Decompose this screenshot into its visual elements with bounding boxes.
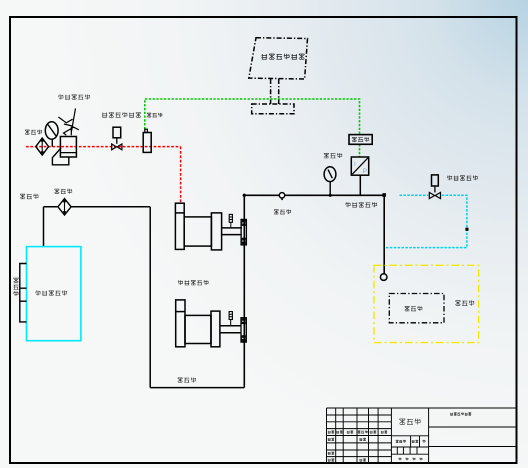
wire: green dashed segment display box to I/P	[359, 144, 361, 157]
label shuxianbiao	[352, 137, 369, 142]
label guolvqi-top-left	[25, 130, 42, 135]
svg-text:I: I	[354, 161, 356, 168]
wire: green dashed signal line from proportional valve up and across	[145, 99, 360, 135]
pressure switch S1 actuator box	[113, 127, 121, 138]
label danxiangfa	[274, 210, 291, 215]
label tiny460.7x413.9	[450, 413, 471, 416]
label tiny400x459	[399, 458, 402, 461]
label yalichuanganqi	[346, 202, 377, 207]
label tiny421x459	[420, 458, 423, 461]
gauge G2 circle with needle	[324, 167, 336, 182]
label wenyadiancifa	[447, 176, 477, 181]
gauge G1 ellipse with needle	[45, 122, 58, 139]
label qiyezengyabeng	[178, 280, 208, 285]
label tiny331x453.2	[328, 452, 334, 455]
label kongqitiaoyafa	[59, 95, 90, 100]
device under test box (black dash-dot)	[389, 294, 444, 323]
label tiny331x460	[328, 459, 334, 462]
monitor base	[252, 104, 294, 114]
label tiny362.7x460	[360, 459, 366, 462]
pump P1 bleed valve	[229, 214, 232, 222]
label tiny415x441.3	[412, 440, 418, 443]
label tiny424x441.3	[423, 440, 426, 443]
label tiny362.7x439.3	[360, 438, 366, 441]
booster pump P1 body	[175, 203, 242, 250]
monitor stand	[271, 79, 279, 104]
test chamber boundary (yellow dash-dot)	[374, 265, 479, 342]
label ceyakou	[455, 300, 474, 305]
wire I/P to main pipe	[359, 175, 361, 195]
pump P2 bleed valve	[229, 312, 232, 320]
wire: cyan dashed line to solenoid valve	[400, 194, 429, 196]
title block grid	[327, 408, 517, 463]
wire: red dashed air line horizontal	[26, 146, 181, 148]
label bilifa	[147, 113, 162, 117]
wire: inlet piping	[44, 207, 245, 388]
label tiny331x432	[328, 431, 334, 434]
pump P1 coupling	[241, 219, 246, 245]
label jiareqi	[14, 278, 19, 296]
wire: pump discharge riser	[243, 195, 245, 387]
regulator V1 box	[60, 137, 76, 158]
label yuanlitu	[399, 419, 420, 425]
pressure switch S1 bowtie valve	[112, 144, 122, 150]
label beiceijian	[405, 306, 423, 311]
label tiny350x432	[347, 431, 353, 434]
label tiny362.7x432	[358, 431, 368, 434]
nozzle outlet circle	[380, 274, 387, 281]
heater element bracket	[20, 264, 27, 322]
label buxiugangshuixiang	[36, 291, 67, 296]
label yasuokongqikaiguan	[102, 112, 141, 117]
filter F1 diamond on air line	[36, 138, 49, 155]
label xunhuanbeng	[178, 378, 196, 383]
label wenyabiao	[324, 153, 342, 158]
label tiny339.4x432	[336, 431, 342, 434]
junction node at pipe right end	[382, 193, 386, 197]
check valve CV1 circle	[279, 193, 284, 198]
pump P2 coupling	[241, 318, 246, 342]
svg-text:P: P	[363, 168, 367, 175]
label tiny373x432	[370, 431, 376, 434]
proportional valve PV1 body	[143, 133, 151, 153]
monitor screen (dash-dot)	[249, 38, 308, 79]
water tank (cyan rect)	[27, 247, 81, 341]
label shuirukou	[20, 194, 38, 199]
label guolvqi2	[55, 189, 73, 194]
circulation pump P2 body	[176, 300, 242, 347]
solenoid valve SV1 bowtie	[429, 192, 440, 198]
label shujucaijixitong	[262, 54, 305, 60]
display box D1	[349, 135, 372, 145]
regulator V1 valve cross symbol above	[58, 108, 79, 135]
label tiny407x459	[406, 458, 409, 461]
label tiny414x459	[413, 458, 416, 461]
label tiny384x432	[381, 431, 387, 434]
wire: main pipe horizontal	[244, 194, 384, 196]
filter F2 diamond	[58, 199, 71, 215]
label tiny331x439.3	[328, 438, 334, 441]
label tiny400.8x441.3	[396, 440, 406, 443]
I/P transducer U1	[351, 157, 368, 175]
wire: outlet drop	[383, 196, 385, 274]
regulator V1 bypass loop below	[52, 148, 68, 165]
wire: red dashed drop to booster pump	[180, 147, 182, 203]
